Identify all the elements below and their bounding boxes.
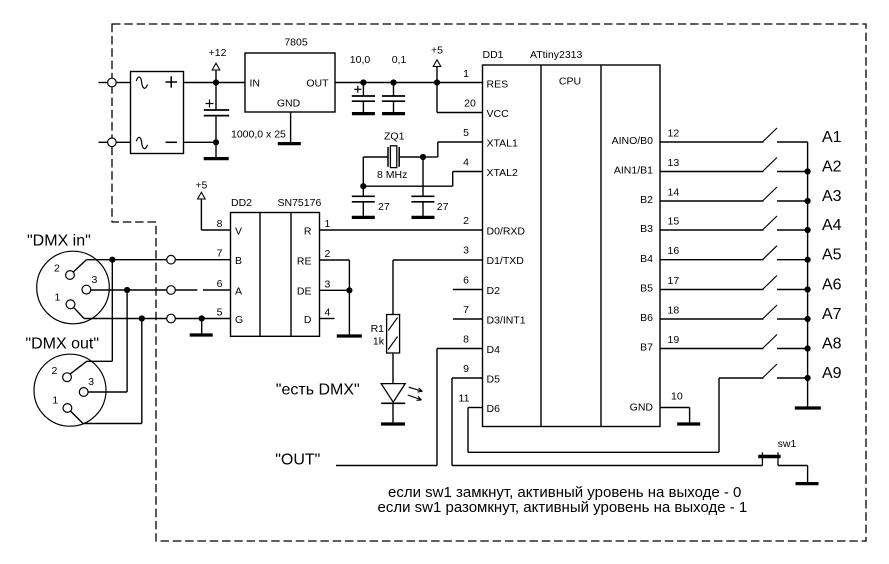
svg-text:3: 3 [88, 376, 94, 388]
switch A8 [763, 335, 808, 349]
node cap 10,0 [360, 79, 366, 85]
switch A1 [763, 128, 808, 142]
svg-text:10: 10 [671, 391, 683, 403]
svg-text:DD2: DD2 [231, 197, 252, 209]
svg-text:2: 2 [463, 215, 469, 227]
wire A9 from D6 [719, 377, 764, 379]
svg-text:GND: GND [630, 402, 654, 414]
wire G line [84, 318, 231, 320]
svg-text:B3: B3 [640, 223, 653, 235]
svg-text:13: 13 [668, 157, 680, 169]
svg-text:1k: 1k [373, 336, 385, 348]
svg-text:DE: DE [297, 286, 312, 298]
svg-text:V: V [235, 225, 242, 237]
wire XTAL2 jog [363, 172, 482, 187]
svg-text:1: 1 [325, 218, 331, 230]
svg-text:DD1: DD1 [483, 49, 504, 61]
node A6 [805, 286, 811, 292]
svg-text:12: 12 [668, 128, 680, 140]
svg-text:A8: A8 [822, 336, 842, 353]
svg-text:3: 3 [92, 274, 98, 286]
svg-text:8: 8 [217, 218, 223, 230]
enclosure dashed border [112, 24, 866, 541]
wire D4 branch [437, 349, 483, 466]
svg-text:17: 17 [668, 275, 680, 287]
wire D2 stub [453, 289, 483, 291]
node A9 [805, 375, 811, 381]
svg-text:B5: B5 [640, 283, 653, 295]
svg-text:10,0: 10,0 [350, 54, 371, 66]
svg-text:7805: 7805 [284, 37, 308, 49]
ground LED [381, 422, 405, 425]
wire +5 to V pin [201, 229, 230, 231]
svg-text:AINO/B0: AINO/B0 [612, 135, 654, 147]
wire 7805 OUT to DD1 RES [335, 82, 483, 84]
svg-text:"OUT": "OUT" [275, 452, 320, 469]
svg-text:"DMX out": "DMX out" [25, 335, 99, 352]
node DE [346, 287, 352, 293]
ground pin 10 [677, 422, 700, 425]
svg-text:RE: RE [297, 255, 312, 267]
svg-text:1: 1 [463, 68, 469, 80]
svg-text:D6: D6 [487, 403, 501, 415]
power +5 arrow DD2 [195, 180, 207, 231]
wire X2 pin2 lead [70, 361, 112, 374]
ground 7805 GND [278, 112, 301, 144]
svg-text:A3: A3 [822, 188, 842, 205]
svg-text:4: 4 [463, 157, 469, 169]
wire OUT [336, 465, 437, 467]
wire D5 to sw1 [452, 465, 762, 467]
IC DD2 pin labels [217, 218, 331, 326]
svg-text:20: 20 [464, 98, 476, 110]
wire D5 branch [452, 378, 483, 466]
wire pin to switch A8 [660, 348, 764, 350]
wire +5 to VCC [437, 83, 483, 113]
wire pin to switch A6 [660, 289, 764, 291]
ground cap C5 [412, 216, 435, 219]
svg-text:XTAL2: XTAL2 [487, 167, 518, 179]
terminal G [167, 314, 176, 323]
wire A line [91, 289, 231, 291]
svg-text:VCC: VCC [487, 108, 510, 120]
wire bridge- to node [184, 141, 217, 143]
svg-text:RES: RES [487, 78, 509, 90]
svg-text:19: 19 [668, 334, 680, 346]
wire X1 pin2 lead [73, 260, 86, 272]
svg-text:D: D [304, 314, 312, 326]
svg-text:8: 8 [463, 334, 469, 346]
svg-text:D0/RXD: D0/RXD [487, 225, 526, 237]
svg-text:2: 2 [54, 263, 60, 275]
svg-text:5: 5 [217, 307, 223, 319]
wire pin to switch A2 [660, 171, 764, 173]
svg-text:"DMX in": "DMX in" [27, 232, 91, 249]
svg-text:SN75176: SN75176 [278, 197, 322, 209]
wire A drop [126, 290, 128, 392]
svg-text:если sw1 разомкнут, активный у: если sw1 разомкнут, активный уровень на … [378, 499, 748, 516]
svg-text:B6: B6 [640, 312, 653, 324]
IC DD1 left pin labels [459, 68, 526, 415]
wire AC input stub top [99, 82, 108, 84]
ground cap 0,1 [382, 112, 405, 115]
switch A6 [763, 276, 808, 290]
svg-text:16: 16 [668, 245, 680, 257]
svg-text:AIN1/B1: AIN1/B1 [614, 165, 653, 177]
svg-text:1: 1 [52, 395, 58, 407]
svg-text:27: 27 [437, 201, 449, 213]
capacitor C5 27 [411, 196, 448, 216]
svg-text:B2: B2 [640, 194, 653, 206]
wire D6 to A9 [468, 378, 719, 452]
node A7 [805, 316, 811, 322]
capacitor C1 1000,0 x 25 [204, 83, 286, 143]
ground DE [337, 290, 362, 336]
node A split [124, 287, 130, 293]
resistor R1 1k [371, 315, 400, 354]
label OUT [275, 452, 320, 469]
terminal A [167, 286, 176, 295]
svg-text:B7: B7 [640, 342, 653, 354]
svg-text:0,1: 0,1 [392, 54, 407, 66]
label DMX in [27, 232, 91, 249]
svg-text:R1: R1 [371, 323, 385, 335]
switch A7 [763, 305, 808, 319]
svg-text:4: 4 [325, 307, 331, 319]
wire R1 to LED [392, 353, 394, 384]
IC DD1 right pin labels [612, 128, 683, 414]
terminal AC input top [108, 78, 117, 87]
capacitor C3 0,1 [382, 54, 407, 112]
svg-text:1000,0 x 25: 1000,0 x 25 [231, 129, 286, 141]
label DMX out [25, 335, 99, 352]
svg-text:CPU: CPU [559, 76, 581, 88]
labels A1-A9 [822, 129, 842, 382]
switch A5 [763, 246, 808, 260]
wire X1 pin1 lead [74, 308, 84, 319]
svg-text:sw1: sw1 [778, 438, 797, 450]
note line 2 [378, 499, 748, 516]
ground G [190, 319, 213, 336]
svg-text:3: 3 [325, 278, 331, 290]
regulator 7805 [245, 37, 335, 113]
wire A bus [807, 142, 809, 407]
wire crystal right drop [422, 157, 424, 196]
wire RE [320, 260, 350, 290]
svg-text:R: R [304, 225, 312, 237]
wire XTAL1 jog [423, 142, 483, 157]
svg-text:B: B [235, 255, 242, 267]
terminal AC input bottom [108, 138, 117, 147]
switch A2 [763, 158, 808, 172]
node crystal left [360, 183, 366, 189]
svg-text:1: 1 [55, 292, 61, 304]
bridge rectifier [131, 72, 184, 154]
switch A9 [763, 364, 808, 378]
svg-text:11: 11 [459, 393, 470, 405]
wire D3/INT1 stub [453, 318, 483, 320]
switch A4 [763, 216, 808, 230]
svg-text:OUT: OUT [306, 78, 329, 90]
ground A bus [795, 406, 821, 409]
wire DE [320, 289, 350, 291]
wire bridge+ to 7805 IN [184, 82, 246, 84]
wire G drop [141, 319, 143, 424]
node G ground [199, 315, 205, 321]
svg-text:G: G [235, 314, 243, 326]
capacitor C2 10,0 [350, 54, 375, 112]
node A8 [805, 345, 811, 351]
connector X1 DMX in [37, 251, 110, 324]
svg-text:A7: A7 [822, 306, 842, 323]
wire pin to switch A1 [660, 141, 764, 143]
ground C1 [204, 142, 229, 158]
wire R to D0/RXD [320, 229, 483, 231]
node A2 [805, 168, 811, 174]
switch A3 [763, 187, 808, 201]
svg-text:18: 18 [668, 305, 680, 317]
wire X2 pin3 lead [88, 391, 127, 393]
svg-text:"есть DMX": "есть DMX" [276, 382, 360, 399]
ground cap C4 [352, 216, 375, 219]
svg-text:27: 27 [378, 201, 390, 213]
svg-text:ZQ1: ZQ1 [384, 131, 405, 143]
svg-text:7: 7 [463, 304, 469, 316]
node B split [109, 257, 115, 263]
svg-text:A9: A9 [822, 365, 842, 382]
wire crystal left drop [362, 157, 364, 196]
wire pin to switch A4 [660, 229, 764, 231]
wire D stub [320, 318, 335, 320]
node A5 [805, 257, 811, 263]
svg-text:A2: A2 [822, 159, 842, 176]
svg-text:6: 6 [463, 275, 469, 287]
svg-text:14: 14 [668, 187, 680, 199]
svg-text:D5: D5 [487, 373, 501, 385]
node A4 [805, 227, 811, 233]
wire terminal to bridge bottom [116, 141, 130, 143]
svg-text:8 MHz: 8 MHz [377, 169, 407, 181]
power +12 arrow [209, 47, 227, 83]
svg-text:15: 15 [668, 216, 680, 228]
svg-text:B4: B4 [640, 253, 653, 265]
terminal B [167, 255, 176, 264]
svg-text:D4: D4 [487, 344, 501, 356]
crystal ZQ1 [363, 131, 423, 182]
wire pin to switch A3 [660, 200, 764, 202]
node G split [139, 315, 145, 321]
node cap 0,1 [390, 79, 396, 85]
IC DD1 ATtiny2313 body [483, 49, 661, 427]
svg-text:D2: D2 [487, 285, 501, 297]
svg-text:9: 9 [463, 363, 469, 375]
wire X2 pin1 lead [71, 411, 142, 423]
node A3 [805, 198, 811, 204]
connector X2 DMX out [34, 354, 106, 426]
svg-text:6: 6 [217, 278, 223, 290]
capacitor C4 27 [352, 196, 390, 216]
node C1 minus [213, 139, 219, 145]
svg-text:ATtiny2313: ATtiny2313 [530, 49, 582, 61]
svg-text:A1: A1 [822, 129, 842, 146]
node crystal right [420, 154, 426, 160]
power +5 arrow [431, 45, 443, 83]
note line 1 [388, 484, 741, 501]
wire B line [86, 259, 230, 261]
ground cap 10,0 [352, 112, 375, 115]
wire pin to switch A7 [660, 318, 764, 320]
switch sw1 [758, 438, 807, 466]
svg-text:IN: IN [250, 78, 261, 90]
wire AC input stub bottom [99, 141, 108, 143]
svg-text:5: 5 [463, 127, 469, 139]
wire B drop [111, 260, 113, 362]
svg-text:XTAL1: XTAL1 [487, 137, 518, 149]
svg-text:2: 2 [52, 365, 58, 377]
svg-text:3: 3 [463, 245, 469, 257]
svg-text:D1/TXD: D1/TXD [487, 255, 525, 267]
wire pin to switch A5 [660, 259, 764, 261]
node +5 [434, 79, 440, 85]
ground sw1 [796, 466, 819, 484]
wire D1/TXD to R1 [393, 260, 483, 315]
svg-text:+5: +5 [195, 180, 207, 192]
svg-text:+12: +12 [209, 47, 227, 59]
wire GND pin 10 [660, 408, 690, 423]
node +12 [213, 79, 219, 85]
svg-text:A5: A5 [822, 247, 842, 264]
svg-text:A: A [235, 285, 242, 297]
svg-text:GND: GND [277, 97, 301, 109]
IC DD2 SN75176 body [231, 197, 322, 336]
svg-text:+5: +5 [431, 45, 443, 57]
svg-text:D3/INT1: D3/INT1 [487, 314, 526, 326]
svg-text:2: 2 [325, 248, 331, 260]
wire terminal to bridge top [116, 82, 130, 84]
svg-text:7: 7 [217, 248, 223, 260]
wire D6 branch [468, 408, 483, 453]
wire LED to ground [392, 403, 394, 422]
LED VD1 [381, 384, 422, 404]
label est DMX [276, 382, 360, 399]
svg-text:A4: A4 [822, 217, 842, 234]
svg-text:A6: A6 [822, 277, 842, 294]
